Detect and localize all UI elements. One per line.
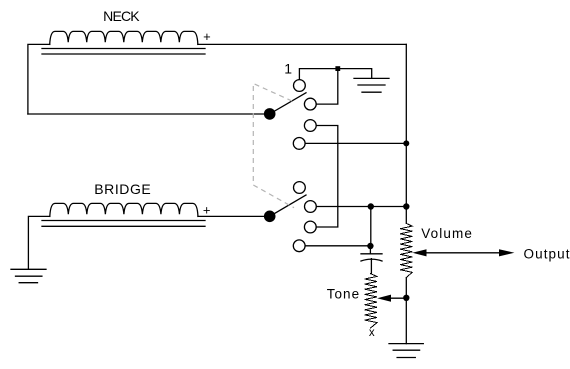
switch contact 5 (294, 182, 306, 194)
wire volume pot bottom to ground (405, 278, 407, 344)
switch contact 1 (294, 80, 306, 92)
wire neck hot (+) to right bus (198, 43, 406, 45)
inductor L2 core lines (42, 221, 205, 227)
output arrowhead (499, 249, 514, 256)
switch SW1a blade pole 1 (270, 93, 306, 114)
svg-text:NECK: NECK (103, 8, 140, 24)
capacitor C1 (361, 246, 382, 274)
wire contact 1 up and over to ground junction (299, 69, 371, 80)
ground symbol G1 top right (354, 78, 389, 92)
switch contact 2 (304, 98, 316, 110)
inductor L1 NECK pickup coil (50, 31, 198, 44)
junction B tone tap (368, 203, 374, 209)
wire contact 2 to junction A (317, 69, 338, 105)
ground symbol G3 bottom right (389, 344, 423, 358)
wire right bus vertical (405, 44, 407, 223)
svg-text:Output: Output (524, 247, 570, 262)
resistor tone potentiometer element (365, 274, 377, 328)
switch SW1b blade pole 2 (270, 195, 306, 216)
svg-text:+: + (203, 202, 211, 217)
wire volume wiper to output (426, 252, 500, 254)
wire neck lead to switch pole 1 common (28, 113, 266, 115)
switch contact 7 (304, 221, 316, 233)
junction right bus at contact 4 wire (403, 140, 409, 146)
svg-text:1: 1 (284, 60, 292, 76)
junction capacitor top (367, 243, 373, 249)
switch contact 6 (305, 201, 317, 213)
tone wiper arrowhead (377, 295, 391, 302)
inductor L2 BRIDGE pickup coil (50, 203, 198, 216)
wire contact 4 to right bus (305, 142, 406, 144)
switch mechanical linkage (dashed) (253, 84, 294, 208)
switch contact 3 (304, 120, 316, 132)
switch contact 4 (293, 138, 305, 150)
wire junction B down to capacitor junction (370, 207, 372, 247)
ground symbol G2 bottom left (11, 269, 46, 282)
junction A (contacts 1-2 to ground) (335, 66, 340, 71)
switch contact 8 (293, 240, 305, 252)
switch SW1a common terminal (264, 108, 276, 120)
wire contact 3 to contact 7 (317, 126, 338, 228)
resistor volume potentiometer element (400, 223, 412, 277)
switch SW1b common terminal (264, 211, 276, 223)
wire contact 6 to right bus (317, 206, 407, 208)
junction right bus at contact 6 wire (403, 203, 409, 209)
wire contact 8 to capacitor junction (305, 245, 370, 247)
svg-text:+: + (203, 29, 211, 44)
junction volume bottom / tone wiper (403, 295, 409, 301)
volume wiper arrowhead (412, 249, 426, 256)
inductor L1 core lines (42, 49, 205, 55)
svg-text:x: x (369, 327, 375, 339)
wire neck left lead to corner (28, 44, 50, 114)
svg-text:Volume: Volume (421, 226, 473, 241)
svg-text:BRIDGE: BRIDGE (94, 181, 151, 197)
svg-text:Tone: Tone (327, 287, 360, 302)
wire bridge left lead down (28, 216, 49, 269)
wire bridge hot to switch pole 2 common (198, 215, 266, 217)
wire tone wiper to ground bus (390, 297, 406, 299)
